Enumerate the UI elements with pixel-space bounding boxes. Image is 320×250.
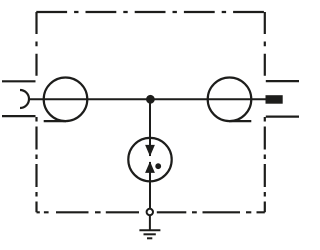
- gas filling indicator dot: [155, 163, 161, 169]
- gas discharge tube F1 circle: [128, 138, 171, 181]
- junction node (filled dot): [146, 95, 155, 104]
- enclosure cut line right bottom: [266, 115, 299, 117]
- gas discharge tube lower electrode (up arrow): [145, 161, 155, 173]
- enclosure boundary bottom right (dash-dot): [157, 211, 265, 213]
- enclosure boundary left upper (dash-dot): [35, 12, 37, 77]
- output male pin terminal (filled): [266, 95, 283, 104]
- enclosure boundary right upper (dash-dot): [264, 12, 266, 77]
- input female connector contact (socket): [20, 90, 29, 108]
- enclosure boundary top (dash-dot): [36, 11, 264, 13]
- wire: vertical branch lower (arrester to earth terminal): [149, 162, 151, 209]
- ground symbol bar 2: [144, 233, 156, 235]
- wire: vertical branch upper (junction to arrester): [149, 99, 151, 156]
- wire: earth stub: [149, 215, 151, 230]
- earth terminal (open circle): [147, 209, 153, 215]
- enclosure boundary bottom left (dash-dot): [37, 211, 140, 213]
- wire: main signal line from input to output: [29, 98, 266, 100]
- enclosure boundary left lower (dash-dot): [35, 117, 37, 212]
- enclosure boundary right lower (dash-dot): [264, 117, 266, 212]
- enclosure cut line right top: [266, 80, 299, 82]
- gas discharge tube upper electrode (down arrow): [145, 145, 155, 157]
- enclosure cut line left top: [2, 80, 36, 82]
- enclosure cut line left bottom: [2, 115, 36, 117]
- left feed-through insulator circle: [44, 78, 88, 122]
- right insulator bottom tangent stub: [229, 120, 251, 122]
- ground symbol bar 1: [139, 229, 160, 231]
- left insulator bottom tangent stub: [44, 120, 66, 122]
- right feed-through insulator circle: [208, 78, 252, 122]
- ground symbol bar 3: [147, 237, 152, 239]
